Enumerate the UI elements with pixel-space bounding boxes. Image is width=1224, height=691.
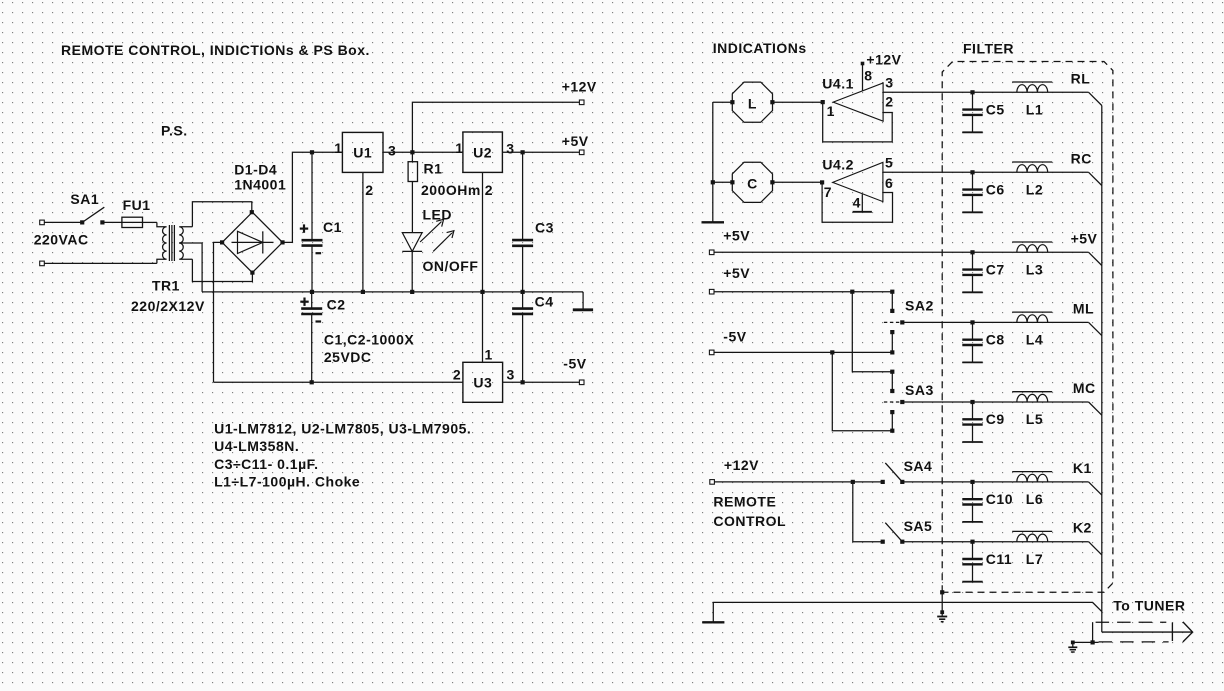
- svg-text:SA4: SA4: [904, 458, 933, 474]
- svg-text:SA1: SA1: [70, 191, 99, 207]
- svg-text:1: 1: [455, 140, 463, 156]
- label 220/2X12V: [131, 298, 205, 314]
- svg-text:RC: RC: [1071, 150, 1092, 166]
- indicator lamp L: [730, 82, 774, 122]
- cable arrow upper dashed line: [1096, 621, 1167, 623]
- wire U4.2 output RC: [883, 171, 1012, 173]
- wire SA3 wiper to filter MC: [902, 401, 1012, 403]
- svg-text:2: 2: [885, 94, 893, 110]
- wire SA4 to filter K1: [902, 481, 1012, 483]
- wire: [102, 221, 122, 223]
- terminal +12V: [579, 100, 584, 105]
- wire C right lead to U4.2 input: [772, 181, 822, 183]
- wire L right lead to U4.1 input: [772, 101, 822, 103]
- terminal +5V row4: [709, 289, 714, 294]
- svg-text:C1: C1: [323, 219, 342, 235]
- svg-text:C2: C2: [327, 297, 346, 313]
- svg-text:200OHm: 200OHm: [421, 182, 481, 198]
- svg-text:To TUNER: To TUNER: [1113, 597, 1185, 613]
- junction filter box ground corner: [940, 590, 944, 594]
- wire secondary bottom lead to bridge: [192, 259, 252, 281]
- svg-text:INDICATIONs: INDICATIONs: [713, 40, 807, 56]
- svg-text:3: 3: [885, 75, 893, 91]
- label +5V: [562, 133, 589, 149]
- wire: [143, 221, 157, 223]
- label -5V row5: [723, 329, 746, 345]
- svg-text:RL: RL: [1071, 70, 1091, 86]
- terminal +5V: [579, 150, 584, 155]
- cable arrow shaft: [1102, 631, 1192, 633]
- title text: [61, 42, 370, 58]
- svg-text:FILTER: FILTER: [963, 41, 1014, 57]
- wire: [44, 262, 157, 264]
- wire MC row to bus: [1012, 402, 1102, 415]
- svg-text:D1-D4: D1-D4: [234, 161, 277, 177]
- junction U4.1 input: [821, 100, 825, 104]
- switch SA4: [881, 458, 933, 484]
- junction U2 pin2 on rail: [480, 290, 484, 294]
- svg-text:K1: K1: [1073, 460, 1092, 476]
- svg-text:4: 4: [853, 195, 861, 211]
- junction C10 top: [970, 480, 974, 484]
- svg-text:L2: L2: [1026, 182, 1043, 198]
- label K2 row: [1073, 520, 1092, 536]
- LED arrow 2: [433, 231, 454, 252]
- capacitor C11: [962, 542, 1012, 582]
- label FILTER: [963, 41, 1014, 57]
- capacitor C1: [300, 152, 342, 292]
- svg-text:K2: K2: [1073, 520, 1092, 536]
- svg-text:C: C: [747, 175, 758, 191]
- pin 3 label U1: [388, 142, 396, 158]
- wire +5V row4: [714, 291, 892, 293]
- wire U3 pin3 to -5V: [503, 381, 582, 383]
- wire ML row to bus: [1012, 322, 1102, 335]
- svg-text:SA5: SA5: [904, 518, 933, 534]
- junction C lead on feed: [711, 180, 715, 184]
- pin 8 wire U4.1: [861, 62, 865, 91]
- svg-text:R1: R1: [424, 161, 443, 177]
- switch SA3: [884, 370, 934, 433]
- op-amp U4.1: [822, 75, 883, 121]
- inductor L4: [1012, 312, 1052, 348]
- label P.S.: [161, 123, 188, 139]
- wire SA2 wiper to filter ML: [902, 321, 1012, 323]
- ground bar of rail: [573, 292, 593, 310]
- wire 0V rail: [202, 291, 583, 293]
- svg-text:+5V: +5V: [1071, 230, 1098, 246]
- svg-text:L: L: [748, 95, 757, 111]
- label 220VAC: [34, 231, 89, 247]
- pin 2 label U4.1: [885, 94, 893, 110]
- label LED: [423, 207, 453, 223]
- svg-text:+12V: +12V: [724, 457, 759, 473]
- svg-text:C6: C6: [986, 182, 1005, 198]
- LED diode: [402, 233, 422, 292]
- label +5V row: [1071, 230, 1098, 246]
- label CONTROL: [713, 513, 786, 529]
- wire +12V row6: [714, 481, 882, 483]
- svg-text:2: 2: [485, 182, 493, 198]
- svg-text:LED: LED: [423, 207, 453, 223]
- svg-text:C7: C7: [986, 262, 1005, 278]
- svg-text:220VAC: 220VAC: [34, 231, 89, 247]
- label RC row: [1071, 150, 1092, 166]
- label +12V op-amp: [866, 52, 901, 68]
- pin 1 label U2: [455, 140, 463, 156]
- svg-text:8: 8: [864, 68, 872, 84]
- junction C3 top: [521, 150, 525, 154]
- junction U1 pin2 on rail: [361, 290, 365, 294]
- label TR1: [152, 278, 180, 294]
- wire U4.1 feedback: [823, 102, 893, 142]
- svg-text:25VDC: 25VDC: [324, 349, 372, 365]
- svg-text:ON/OFF: ON/OFF: [423, 258, 479, 274]
- pin 2 label U1: [365, 182, 373, 198]
- label RL row: [1071, 70, 1091, 86]
- power bar +5V feed: [702, 221, 725, 223]
- svg-text:2: 2: [365, 182, 373, 198]
- svg-text:U4.1: U4.1: [822, 75, 854, 91]
- note parts list line 2: [214, 438, 299, 454]
- wire -5V row5: [714, 351, 892, 353]
- svg-text:U1: U1: [353, 145, 372, 161]
- svg-text:U4.2: U4.2: [822, 157, 854, 173]
- pin 1 label U1: [334, 140, 342, 156]
- terminal 220VAC line bottom: [40, 261, 45, 266]
- svg-text:ML: ML: [1073, 300, 1094, 316]
- capacitor C9: [962, 402, 1004, 442]
- svg-text:FU1: FU1: [123, 197, 151, 213]
- switch SA5: [881, 518, 933, 544]
- svg-text:L1÷L7-100µH. Choke: L1÷L7-100µH. Choke: [214, 474, 360, 490]
- pin 8 label: [864, 68, 872, 84]
- label ON/OFF: [423, 258, 479, 274]
- svg-text:3: 3: [507, 366, 515, 382]
- capacitor C4: [512, 292, 553, 382]
- bridge rectifier D1-D4: [222, 212, 282, 272]
- svg-text:L3: L3: [1026, 262, 1043, 278]
- wire U2 pin3 to +5V: [502, 151, 581, 153]
- svg-text:C9: C9: [986, 411, 1005, 427]
- switch SA1: [70, 191, 104, 225]
- pin 2 label U3: [453, 366, 461, 382]
- svg-text:U3: U3: [473, 375, 492, 391]
- wire RC row to bus: [1012, 172, 1102, 185]
- svg-text:SA2: SA2: [905, 298, 934, 314]
- wire -V line to U3 pin2: [214, 381, 463, 383]
- svg-text:L5: L5: [1026, 411, 1043, 427]
- svg-text:L4: L4: [1026, 332, 1043, 348]
- junction C11 top: [970, 540, 974, 544]
- svg-text:REMOTE CONTROL, INDICTIONs & P: REMOTE CONTROL, INDICTIONs & PS Box.: [61, 42, 370, 58]
- label MC row: [1073, 380, 1096, 396]
- label 1N4001: [234, 176, 286, 192]
- ground filter box: [937, 592, 947, 621]
- terminal -5V row5: [709, 350, 714, 355]
- label 200OHm: [421, 182, 481, 198]
- capacitor C7: [962, 252, 1004, 292]
- svg-text:1N4001: 1N4001: [234, 176, 286, 192]
- filter dashed box: [942, 62, 1113, 593]
- cable arrow lower dashed line: [1099, 641, 1169, 643]
- svg-text:C4: C4: [535, 294, 554, 310]
- terminal +12V row6: [710, 480, 715, 485]
- capacitor C3: [512, 152, 554, 292]
- inductor L1: [1012, 82, 1052, 118]
- note parts list line 1: [214, 421, 471, 437]
- svg-text:L7: L7: [1026, 551, 1043, 567]
- terminal 220VAC line top: [40, 220, 45, 225]
- wire U4.2 feedback: [822, 182, 892, 222]
- svg-text:C11: C11: [986, 551, 1012, 567]
- wire +12V feed to SA5: [851, 480, 883, 542]
- capacitor C10: [962, 482, 1013, 522]
- svg-text:P.S.: P.S.: [161, 123, 188, 139]
- wire +12V line: [412, 102, 581, 152]
- svg-text:+12V: +12V: [562, 79, 597, 95]
- svg-text:C3÷C11- 0.1µF.: C3÷C11- 0.1µF.: [214, 456, 318, 472]
- pin 4 ground U4.2: [853, 194, 872, 212]
- label K1 row: [1073, 460, 1092, 476]
- cable arrow head: [1172, 622, 1192, 642]
- inductor L6: [1012, 472, 1052, 508]
- regulator U2: [463, 132, 503, 172]
- svg-text:C5: C5: [986, 102, 1005, 118]
- pin 3 label U4.1: [885, 75, 893, 91]
- svg-text:U1-LM7812, U2-LM7805, U3-LM7: U1-LM7812, U2-LM7805, U3-LM7905.: [214, 421, 471, 437]
- svg-text:U4-LM358N.: U4-LM358N.: [214, 438, 299, 454]
- svg-text:SA3: SA3: [905, 382, 934, 398]
- pin 2 label U2: [485, 182, 493, 198]
- svg-text:C8: C8: [986, 332, 1005, 348]
- junction U4.2 input: [820, 180, 824, 184]
- wire: [44, 221, 82, 223]
- wire bridge positive output to U1 pin1: [283, 152, 343, 242]
- pin 3 label U3: [507, 366, 515, 382]
- inductor L7: [1012, 531, 1052, 567]
- svg-text:C3: C3: [535, 220, 554, 236]
- junction bridge bottom corner: [250, 271, 254, 275]
- wire C left lead: [713, 181, 733, 183]
- wire +5V row to bus: [1012, 252, 1102, 265]
- pin 7 label U4.2: [824, 184, 832, 200]
- label REMOTE: [713, 493, 776, 509]
- regulator U3: [463, 362, 503, 402]
- inductor L5: [1012, 392, 1052, 428]
- svg-text:REMOTE: REMOTE: [713, 493, 776, 509]
- svg-text:TR1: TR1: [152, 278, 180, 294]
- wire -5V feed to SA3 bottom: [830, 350, 892, 430]
- ground cable shield: [1068, 641, 1077, 653]
- wire U2 pin2 to U3 pin1: [482, 172, 484, 362]
- junction C9 top: [970, 400, 974, 404]
- wire RL row to bus: [1012, 92, 1102, 105]
- label -5V: [563, 355, 586, 371]
- junction U1 pin3 node: [410, 150, 414, 154]
- junction LED on rail: [410, 290, 414, 294]
- svg-text:-5V: -5V: [723, 329, 746, 345]
- svg-text:3: 3: [388, 142, 396, 158]
- junction bridge top corner: [250, 210, 254, 214]
- wire to U2 pin1: [412, 151, 463, 153]
- svg-text:+5V: +5V: [723, 265, 750, 281]
- svg-text:+12V: +12V: [866, 52, 901, 68]
- label C1,C2-1000X: [324, 332, 414, 348]
- svg-text:MC: MC: [1073, 380, 1096, 396]
- wire K1 row to bus: [1012, 482, 1102, 495]
- wire +5V row3 to filter: [714, 251, 1012, 253]
- svg-text:5: 5: [885, 155, 893, 171]
- junction C1 bottom on rail: [310, 290, 314, 294]
- note parts list line 3: [214, 456, 318, 472]
- wire secondary top lead to bridge: [192, 202, 251, 227]
- capacitor C6: [962, 172, 1004, 212]
- svg-text:U2: U2: [473, 145, 492, 161]
- svg-text:2: 2: [453, 366, 461, 382]
- junction C8 top: [970, 320, 974, 324]
- inductor L3: [1012, 242, 1052, 278]
- junction C5 top: [970, 90, 974, 94]
- wire U1 pin2 to rail: [362, 172, 364, 292]
- junction C6 top: [970, 170, 974, 174]
- LED arrow 1: [420, 219, 444, 242]
- svg-text:220/2X12V: 220/2X12V: [131, 298, 205, 314]
- svg-text:1: 1: [827, 103, 835, 119]
- junction C7 top: [970, 250, 974, 254]
- pin 6 label U4.2: [885, 175, 893, 191]
- transformer TR1 core: [169, 225, 174, 261]
- label INDICATIONs: [713, 40, 807, 56]
- inductor L2: [1012, 162, 1052, 198]
- pin 1 label U3: [485, 347, 493, 363]
- junction C1 top: [310, 150, 314, 154]
- switch SA2: [884, 290, 934, 355]
- power bar ground return: [702, 621, 724, 623]
- junction bridge left corner: [220, 240, 224, 244]
- junction C4 bottom: [521, 380, 525, 384]
- pin 5 label U4.2: [885, 155, 893, 171]
- svg-text:L1: L1: [1026, 102, 1043, 118]
- label D1-D4: [234, 161, 277, 177]
- label +12V row6: [724, 457, 759, 473]
- label R1: [424, 161, 443, 177]
- label 25VDC: [324, 349, 372, 365]
- label To TUNER: [1113, 597, 1185, 613]
- label ML row: [1073, 300, 1094, 316]
- terminal -5V: [579, 380, 584, 385]
- junction bridge right corner: [280, 240, 284, 244]
- svg-text:-5V: -5V: [563, 355, 586, 371]
- svg-text:C1,C2-1000X: C1,C2-1000X: [324, 332, 414, 348]
- junction C2 bottom on -V line: [310, 380, 314, 384]
- wire shield link: [1073, 622, 1099, 644]
- svg-text:+5V: +5V: [562, 133, 589, 149]
- transformer TR1 primary winding: [157, 222, 167, 263]
- wire K2 row to bus: [1012, 542, 1102, 555]
- label +12V: [562, 79, 597, 95]
- wire SA5 to filter K2: [902, 541, 1012, 543]
- svg-text:7: 7: [824, 184, 832, 200]
- svg-text:3: 3: [506, 141, 514, 157]
- wire ground return line: [713, 602, 1102, 621]
- pin 1 label U4.1: [827, 103, 835, 119]
- note parts list line 4: [214, 474, 360, 490]
- svg-text:1: 1: [334, 140, 342, 156]
- wire L left lead: [713, 101, 733, 103]
- wire output bus: [1101, 106, 1103, 633]
- label +5V row4: [723, 265, 750, 281]
- svg-text:CONTROL: CONTROL: [713, 513, 786, 529]
- wire U4.1 output RL: [883, 91, 1012, 93]
- capacitor C2: [301, 292, 322, 314]
- indicator lamp C: [730, 162, 774, 202]
- wire bridge negative output to -V line: [214, 242, 223, 382]
- resistor R1: [408, 152, 417, 232]
- svg-text:1: 1: [485, 347, 493, 363]
- wire U1 pin3: [383, 151, 412, 153]
- wire center tap to 0V rail: [179, 243, 202, 292]
- capacitor C5: [962, 92, 1004, 132]
- capacitor C8: [962, 322, 1004, 362]
- svg-text:+5V: +5V: [723, 228, 750, 244]
- op-amp U4.2: [822, 157, 883, 202]
- svg-text:C10: C10: [986, 491, 1013, 507]
- junction C3 bottom on rail: [521, 290, 525, 294]
- regulator U1: [342, 132, 383, 172]
- pin 3 label U2: [506, 141, 514, 157]
- fuse FU1: [122, 197, 151, 228]
- svg-text:6: 6: [885, 175, 893, 191]
- wire +5V feed to SA3 top: [850, 290, 892, 372]
- svg-text:L6: L6: [1026, 491, 1043, 507]
- wire indicator +5V feed: [712, 102, 714, 222]
- label +5V row3: [723, 228, 750, 244]
- terminal +5V row3: [709, 250, 714, 255]
- transformer TR1 secondary winding: [179, 227, 192, 259]
